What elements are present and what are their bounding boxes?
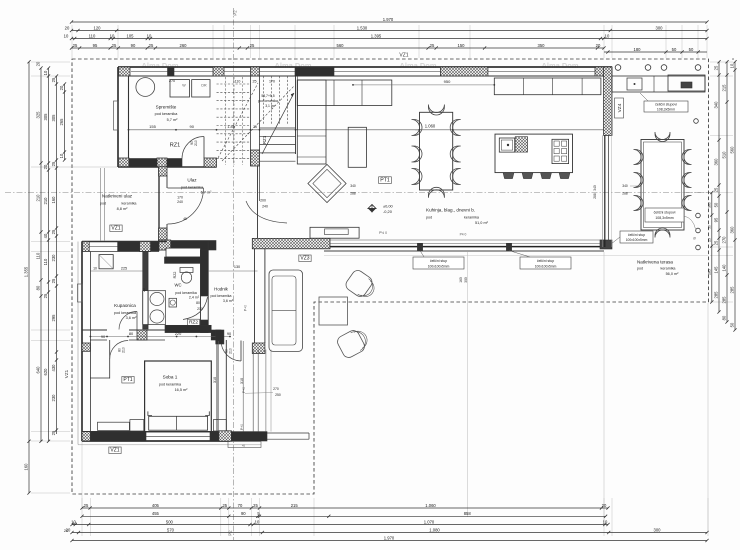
interior dim line through storage/stairs/living: [129, 129, 605, 131]
svg-text:10: 10: [110, 33, 115, 38]
svg-text:čelični stup: čelični stup: [628, 233, 645, 237]
outdoor chair 1: [344, 268, 379, 302]
svg-text:pod keramika: pod keramika: [181, 185, 204, 189]
dim 340/288 on P1: [630, 185, 640, 187]
step lines: [267, 432, 309, 434]
svg-text:P+0: P+0: [242, 387, 246, 393]
left dimension lines: [28, 62, 30, 493]
door RZ1 from storage: [203, 137, 205, 159]
svg-text:288: 288: [593, 193, 597, 199]
svg-text:Alma Dom: Alma Dom: [541, 61, 578, 70]
south glass wall: [324, 239, 604, 241]
top dimension lines: [72, 21, 708, 23]
bathroom north wall: [82, 241, 167, 243]
steel column label 3: [620, 231, 653, 243]
svg-text:265: 265: [59, 118, 64, 126]
svg-text:25: 25: [253, 80, 257, 84]
svg-text:215: 215: [291, 503, 299, 508]
svg-text:145: 145: [714, 266, 719, 274]
svg-text:300: 300: [464, 277, 468, 283]
bedroom west closet shelf: [90, 377, 110, 379]
svg-text:DR: DR: [201, 84, 207, 88]
svg-text:keramika: keramika: [122, 202, 138, 206]
bath/wc partition: [143, 252, 148, 291]
svg-text:300: 300: [654, 527, 662, 532]
extension lines top: [71, 25, 73, 58]
toilet: [180, 268, 193, 273]
steel column label 2: [645, 208, 684, 222]
svg-text:340: 340: [593, 185, 597, 191]
step below SE wall: [228, 442, 261, 448]
svg-text:950: 950: [444, 79, 451, 84]
svg-text:560: 560: [337, 43, 345, 48]
svg-text:25: 25: [43, 293, 48, 298]
svg-text:čelični stupovi: čelični stupovi: [655, 103, 677, 107]
stair arrow solid: [262, 93, 294, 154]
svg-text:240: 240: [262, 205, 268, 209]
svg-text:10: 10: [147, 33, 152, 38]
svg-text:20: 20: [602, 503, 607, 508]
svg-text:360: 360: [730, 226, 735, 234]
stair direction dashed lines: [218, 83, 258, 158]
svg-text:305: 305: [43, 113, 48, 121]
svg-text:285: 285: [722, 296, 727, 304]
svg-text:210: 210: [229, 348, 233, 354]
svg-text:pod keramika: pod keramika: [159, 383, 182, 387]
svg-text:25: 25: [51, 430, 56, 435]
north wall corner column NE: [595, 67, 612, 76]
stairwell treads upper flight (dashed): [217, 83, 251, 85]
svg-text:110: 110: [36, 252, 41, 259]
outdoor square table: [319, 297, 348, 325]
svg-text:80: 80: [722, 315, 727, 320]
svg-text:3,6 m²: 3,6 m²: [126, 316, 137, 320]
section line P1 horizontal: [5, 192, 712, 194]
svg-text:1.395: 1.395: [371, 33, 382, 38]
island stools: [503, 173, 514, 179]
storage south wall: [118, 166, 217, 168]
svg-text:50: 50: [689, 47, 694, 52]
svg-text:20: 20: [142, 288, 146, 292]
svg-text:25: 25: [222, 503, 227, 508]
svg-text:560: 560: [730, 146, 735, 154]
svg-text:25: 25: [430, 43, 435, 48]
dining chairs: [412, 120, 423, 136]
svg-text:250: 250: [275, 393, 281, 397]
svg-text:53,7+5,5: 53,7+5,5: [261, 94, 274, 98]
svg-text:pod: pod: [426, 216, 432, 220]
east wall hatched part: [604, 67, 612, 135]
svg-text:100x100x5mm: 100x100x5mm: [535, 264, 557, 268]
svg-text:270: 270: [722, 236, 727, 244]
svg-text:keramika: keramika: [464, 216, 480, 220]
ulaz west wall: [158, 167, 160, 242]
bathroom dim: [90, 270, 143, 272]
outdoor kitchen counter: [612, 76, 705, 92]
svg-text:RZ2: RZ2: [189, 320, 198, 326]
south wall extension east: [225, 432, 267, 441]
level marker: [368, 205, 376, 209]
svg-text:20: 20: [66, 527, 71, 532]
svg-text:170: 170: [269, 80, 275, 84]
svg-text:25: 25: [714, 187, 719, 192]
svg-text:45: 45: [242, 444, 246, 448]
north wall stair spine column: [251, 67, 260, 76]
svg-text:90: 90: [189, 124, 194, 129]
svg-text:1.970: 1.970: [383, 17, 394, 22]
svg-text:25: 25: [250, 43, 255, 48]
door RZ2: [183, 297, 208, 320]
svg-text:288: 288: [350, 192, 356, 196]
SE corner post: [600, 240, 612, 249]
bedroom north wall east part: [211, 330, 221, 340]
svg-text:150: 150: [458, 43, 466, 48]
dining table: [420, 112, 453, 190]
svg-text:VZ1: VZ1: [399, 53, 408, 59]
steel column label 1: [644, 101, 688, 112]
svg-text:310: 310: [213, 377, 217, 383]
svg-text:1.355: 1.355: [24, 266, 29, 277]
bedroom door (closet side): [109, 340, 111, 379]
svg-text:25: 25: [714, 65, 719, 70]
svg-text:110: 110: [89, 33, 96, 38]
svg-text:160: 160: [24, 463, 29, 471]
svg-text:25: 25: [73, 43, 78, 48]
svg-text:350: 350: [538, 43, 546, 48]
svg-text:340: 340: [714, 101, 719, 109]
stairwell treads lower flight: [260, 127, 296, 129]
svg-text:pod: pod: [100, 202, 106, 206]
column label below south glass wall 1: [413, 257, 464, 269]
outdoor sink: [627, 78, 642, 90]
svg-text:VZ4: VZ4: [617, 103, 623, 112]
svg-text:Soba 1: Soba 1: [163, 375, 178, 380]
svg-text:285: 285: [714, 291, 719, 299]
property/roof dashed boundary: [72, 59, 709, 494]
svg-text:240: 240: [177, 200, 183, 204]
P1 dash over terrace table: [640, 192, 710, 194]
terrace roof columns top: [615, 65, 621, 71]
svg-text:500: 500: [166, 519, 174, 524]
north wall window living: [334, 71, 440, 73]
north wall post: [168, 67, 175, 76]
svg-text:Kuhinja, blag., dnevni b.: Kuhinja, blag., dnevni b.: [426, 208, 475, 213]
svg-text:100x100x5mm: 100x100x5mm: [428, 264, 450, 268]
bedroom top dim line: [90, 336, 230, 338]
svg-text:PT1: PT1: [123, 377, 132, 383]
svg-text:10: 10: [43, 70, 48, 75]
svg-text:1.85: 1.85: [227, 125, 234, 129]
svg-text:270: 270: [273, 387, 279, 391]
svg-text:Ulaz: Ulaz: [187, 178, 197, 183]
svg-text:50: 50: [730, 322, 735, 327]
hodnik/living wall: [254, 249, 256, 354]
storage west window sill: [114, 101, 119, 130]
svg-text:90: 90: [131, 43, 136, 48]
front door: [168, 187, 204, 189]
svg-text:180: 180: [634, 47, 642, 52]
svg-text:čelični stup: čelični stup: [537, 259, 554, 263]
svg-text:105: 105: [127, 33, 135, 38]
svg-text:RZ2: RZ2: [173, 272, 177, 279]
svg-text:120: 120: [94, 25, 102, 30]
island sink: [499, 138, 514, 152]
storage round table: [136, 78, 155, 97]
svg-text:P2: P2: [233, 10, 238, 16]
interior dim line over table: [415, 129, 470, 131]
storage west wall: [117, 67, 119, 167]
porch edge lines below hodnik: [252, 350, 254, 432]
svg-text:25: 25: [112, 43, 117, 48]
stairwell left flight vertical dashed lines: [225, 77, 227, 165]
svg-text:285: 285: [707, 269, 711, 275]
svg-text:Kupaonica: Kupaonica: [114, 303, 136, 308]
west wall mid column: [82, 343, 90, 351]
stair spine wall: [250, 76, 252, 166]
svg-text:Natkrivena terasa: Natkrivena terasa: [637, 260, 673, 265]
svg-text:45: 45: [183, 217, 187, 221]
column label below south glass wall 2: [520, 257, 571, 269]
svg-text:3,6 m²: 3,6 m²: [223, 299, 234, 303]
stairwell east wall: [295, 76, 297, 154]
svg-text:1.060: 1.060: [425, 503, 436, 508]
wc east wall: [200, 250, 202, 333]
armchair diamond: [308, 164, 346, 202]
svg-text:25: 25: [149, 43, 154, 48]
svg-text:20: 20: [65, 25, 70, 30]
svg-text:110: 110: [235, 80, 241, 84]
svg-text:VZ1: VZ1: [64, 369, 69, 378]
svg-text:360: 360: [707, 202, 711, 208]
outdoor chair 2: [335, 326, 371, 360]
svg-text:10: 10: [93, 266, 97, 270]
svg-text:100x100x5mm: 100x100x5mm: [626, 238, 648, 242]
kitchen counter north: [494, 78, 601, 95]
svg-text:56,0 m²: 56,0 m²: [666, 272, 680, 276]
svg-text:95: 95: [714, 217, 719, 222]
drainer grid: [515, 137, 527, 152]
north wall hatched segment: [440, 67, 488, 76]
extension lines left: [31, 61, 70, 63]
bedroom east wall: [216, 344, 218, 432]
svg-text:Natkriveni ulaz: Natkriveni ulaz: [102, 194, 133, 199]
svg-text:20: 20: [36, 61, 41, 66]
svg-text:220: 220: [175, 331, 182, 336]
svg-text:WC: WC: [175, 283, 182, 288]
svg-text:260: 260: [180, 43, 188, 48]
svg-text:6,7 m²: 6,7 m²: [201, 191, 212, 195]
svg-text:108,3x5mm: 108,3x5mm: [655, 216, 673, 220]
svg-text:430: 430: [51, 364, 56, 372]
svg-text:2,4 m²: 2,4 m²: [189, 296, 200, 300]
svg-text:570: 570: [167, 527, 175, 532]
svg-text:80: 80: [36, 285, 41, 290]
svg-text:285: 285: [730, 286, 735, 294]
svg-text:1.530: 1.530: [357, 25, 368, 30]
svg-text:10: 10: [603, 519, 608, 524]
bench: [98, 422, 130, 430]
svg-text:210: 210: [197, 307, 203, 311]
svg-text:95: 95: [93, 43, 98, 48]
bedroom north wall: [82, 329, 107, 331]
svg-text:50: 50: [714, 202, 719, 207]
svg-text:25: 25: [51, 229, 56, 234]
svg-text:±0,00: ±0,00: [383, 204, 394, 209]
svg-text:10: 10: [64, 33, 69, 38]
big pivot door ulaz-living: [246, 201, 287, 223]
svg-text:80: 80: [196, 301, 200, 305]
svg-text:25: 25: [253, 125, 257, 129]
svg-text:90: 90: [241, 511, 246, 516]
kitchen island: [495, 134, 573, 173]
svg-text:pod keramika: pod keramika: [155, 112, 179, 116]
svg-text:pod keramika: pod keramika: [175, 291, 197, 295]
svg-text:RZ1: RZ1: [262, 135, 267, 144]
svg-text:50: 50: [672, 47, 677, 52]
svg-text:P+0: P+0: [240, 424, 244, 430]
svg-text:50: 50: [707, 225, 711, 229]
svg-text:pod: pod: [637, 267, 643, 271]
svg-text:5,7 m²: 5,7 m²: [167, 118, 178, 122]
ulaz south wall: [159, 241, 216, 251]
svg-text:210: 210: [122, 347, 126, 353]
section line P2 vertical: [233, 8, 235, 540]
cooktop: [552, 139, 569, 163]
PT1 living label: [379, 177, 392, 184]
north wall column at stairwell: [213, 67, 224, 76]
svg-text:PT1: PT1: [380, 178, 390, 184]
svg-text:25: 25: [253, 503, 258, 508]
twin basins: [148, 291, 166, 325]
east glass wall: [602, 135, 604, 247]
wc basin: [169, 298, 177, 307]
sofa 2: [269, 270, 303, 351]
svg-text:čelični stup: čelični stup: [430, 259, 447, 263]
nightstand right: [213, 420, 226, 431]
svg-text:25: 25: [707, 238, 711, 242]
ulaz east wall / stair spine continuation: [257, 166, 259, 239]
svg-text:858: 858: [464, 511, 472, 516]
VZ4 label: [615, 98, 624, 118]
svg-text:270: 270: [169, 79, 175, 83]
svg-text:225: 225: [121, 266, 127, 270]
terrace edge columns right: [696, 213, 701, 218]
svg-text:P+0: P+0: [244, 305, 248, 311]
svg-text:288: 288: [622, 192, 628, 196]
svg-text:keramika: keramika: [661, 267, 677, 271]
svg-text:160: 160: [51, 196, 56, 204]
svg-text:340: 340: [622, 184, 628, 188]
bed foot band: [149, 416, 208, 430]
svg-text:455: 455: [152, 511, 160, 516]
svg-text:200: 200: [260, 199, 266, 203]
svg-text:čelični stupovi: čelični stupovi: [654, 211, 676, 215]
svg-text:25: 25: [51, 161, 56, 166]
bathroom door: [136, 312, 138, 331]
washing machine: [99, 255, 113, 269]
coffee table: [348, 127, 366, 167]
wc south wall: [165, 325, 211, 332]
dryer DR: [192, 80, 210, 97]
svg-text:405: 405: [152, 503, 160, 508]
svg-text:25: 25: [51, 278, 56, 283]
svg-text:pod keramika: pod keramika: [114, 311, 137, 315]
svg-text:305: 305: [51, 114, 56, 122]
svg-text:1.080: 1.080: [429, 527, 440, 532]
svg-text:210: 210: [194, 140, 198, 146]
svg-text:360: 360: [714, 158, 719, 166]
svg-text:10: 10: [71, 519, 76, 524]
svg-text:215: 215: [722, 84, 727, 92]
storage SW corner column: [119, 158, 130, 167]
svg-text:70: 70: [238, 503, 243, 508]
svg-text:295: 295: [51, 314, 56, 322]
top-right dimension line: [604, 51, 707, 53]
inner right dim: [711, 193, 713, 303]
svg-text:VZ1: VZ1: [111, 226, 120, 232]
svg-text:340: 340: [350, 184, 356, 188]
svg-text:140: 140: [722, 264, 727, 272]
bbq box: [668, 75, 705, 91]
svg-text:Hodnik: Hodnik: [214, 287, 228, 292]
svg-text:RZ1: RZ1: [170, 143, 181, 149]
washer W: [170, 80, 190, 97]
bedroom door east: [240, 341, 242, 362]
north wall solid segment: [295, 67, 334, 76]
svg-text:20: 20: [59, 85, 64, 90]
svg-text:P4 0: P4 0: [460, 233, 467, 237]
svg-text:W: W: [182, 84, 186, 88]
north wall landing window: [224, 71, 295, 73]
svg-text:10: 10: [605, 33, 610, 38]
bottom dimension lines: [82, 507, 608, 509]
svg-text:10: 10: [255, 519, 260, 524]
svg-text:1.060: 1.060: [425, 124, 436, 129]
right dimension lines: [718, 62, 720, 312]
north wall corner column NW: [119, 67, 131, 76]
svg-text:25: 25: [714, 240, 719, 245]
svg-text:160: 160: [459, 277, 463, 283]
north exterior wall: [118, 66, 612, 68]
svg-text:20: 20: [596, 43, 601, 48]
WC north wall: [165, 257, 201, 263]
terrace table: [641, 140, 684, 231]
TV sideboard: [310, 227, 359, 238]
nightstand left: [130, 420, 144, 431]
svg-text:40: 40: [43, 233, 48, 238]
svg-text:300: 300: [656, 25, 664, 30]
svg-text:1.070: 1.070: [424, 519, 435, 524]
north wall window storage: [131, 71, 213, 73]
bed: [145, 361, 212, 432]
svg-text:20: 20: [43, 164, 48, 169]
svg-text:1.970: 1.970: [384, 535, 395, 540]
extension lines bottom: [81, 498, 83, 536]
RZ2 shaft niche: [166, 248, 201, 257]
svg-text:210: 210: [36, 194, 41, 202]
svg-text:108,3x5mm: 108,3x5mm: [657, 108, 675, 112]
svg-text:110: 110: [43, 258, 48, 265]
svg-text:VZ3: VZ3: [300, 256, 309, 262]
svg-text:VZ1: VZ1: [110, 448, 119, 454]
svg-text:Alma Dom: Alma Dom: [399, 61, 436, 70]
svg-text:pod keramika: pod keramika: [210, 294, 231, 298]
south wall hatched VZ3 part: [252, 238, 330, 248]
extension lines right: [710, 61, 733, 63]
svg-text:325: 325: [36, 111, 41, 119]
svg-text:P½ 0: P½ 0: [379, 231, 387, 235]
svg-text:8,8 m²: 8,8 m²: [117, 207, 128, 211]
